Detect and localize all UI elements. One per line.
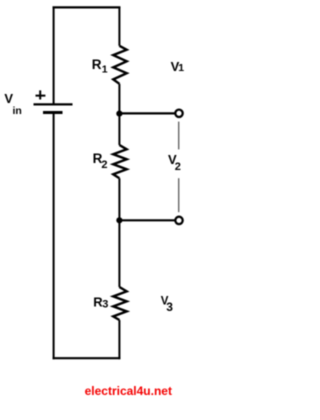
svg-text:1: 1 bbox=[102, 64, 108, 76]
terminal 2 (open circle) bbox=[175, 217, 182, 224]
svg-text:in: in bbox=[13, 105, 22, 117]
battery Vin: long positive plate bbox=[34, 103, 73, 105]
wire: R1 bottom to R2 top through node A bbox=[118, 84, 120, 145]
svg-text:R: R bbox=[92, 57, 102, 72]
wire: right vertical upper (top-right corner to R1) bbox=[118, 7, 120, 46]
wire: bottom horizontal bbox=[53, 357, 121, 359]
wire: tap from node B to terminal 2 bbox=[119, 219, 175, 221]
svg-text:3: 3 bbox=[102, 299, 108, 311]
resistor R1 zigzag bbox=[113, 46, 127, 84]
svg-text:2: 2 bbox=[101, 159, 107, 171]
plus sign bbox=[36, 90, 46, 99]
wire: R3 bottom to bottom wire bbox=[118, 320, 120, 359]
svg-text:1: 1 bbox=[178, 62, 184, 74]
resistor R3 zigzag bbox=[113, 287, 127, 320]
node B junction dot bbox=[116, 217, 122, 223]
svg-text:electrical4u.net: electrical4u.net bbox=[85, 384, 172, 398]
battery Vin: short negative plate bbox=[43, 111, 63, 114]
wire: left vertical upper (battery + plate to top-left corner) bbox=[53, 7, 55, 105]
node A junction dot bbox=[116, 111, 122, 117]
svg-text:3: 3 bbox=[166, 300, 173, 314]
terminal 1 (open circle) bbox=[175, 110, 182, 117]
wire: R2 bottom to R3 top through node B bbox=[118, 178, 120, 287]
svg-text:2: 2 bbox=[175, 161, 181, 173]
resistor R2 zigzag bbox=[113, 145, 127, 178]
wire: tap from node A to terminal 1 bbox=[119, 112, 175, 114]
lead: thin gray line V2 label down to terminal 2 bbox=[178, 178, 180, 212]
lead: thin gray line terminal 1 down to V2 label bbox=[178, 122, 180, 150]
wire: left vertical lower (battery - plate to bottom-left corner) bbox=[53, 113, 55, 360]
wire: top horizontal bbox=[53, 6, 121, 8]
